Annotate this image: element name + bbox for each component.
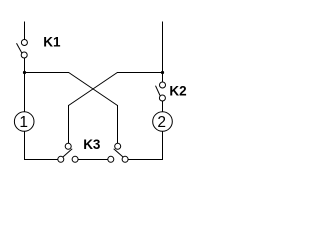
svg-text:K3: K3: [83, 137, 101, 152]
wire A vertical to K3 right pole: [117, 105, 119, 143]
wire A horizontal: [24, 72, 69, 74]
wire K2 to lamp 2: [162, 101, 164, 112]
lamp 1: [14, 112, 34, 132]
wire left top rail: [24, 22, 26, 40]
svg-text:K2: K2: [169, 83, 186, 98]
wire bottom right horizontal: [128, 159, 163, 161]
node A junction dot: [23, 71, 26, 74]
switch K3 left top contact: [65, 143, 71, 149]
wire lamp 2 down: [162, 131, 164, 159]
wire B diagonal crossover: [69, 73, 118, 106]
wire right top rail: [162, 22, 164, 73]
switch K3 left inner contact: [72, 156, 78, 162]
switch K3 left blade: [63, 149, 72, 157]
switch K1 blade: [17, 43, 22, 53]
switch K1 top contact: [21, 40, 27, 46]
wire lamp 1 down: [24, 131, 26, 159]
lamp 2: [153, 112, 173, 132]
switch K3 right top contact: [115, 143, 121, 149]
node B junction dot: [161, 71, 164, 74]
wire B horizontal: [117, 72, 163, 74]
switch K1 bottom contact: [21, 52, 27, 58]
switch K2 top contact: [160, 82, 166, 88]
wire K1 to node A: [24, 58, 26, 73]
switch K2 bottom contact: [159, 95, 165, 101]
wire bottom left horizontal: [24, 159, 58, 161]
switch K2 blade: [156, 86, 161, 96]
wire A diagonal crossover: [69, 73, 118, 106]
switch K3 right blade: [114, 149, 123, 157]
wire node A to lamp 1: [24, 73, 26, 112]
wire node B to K2: [162, 73, 164, 82]
switch K3 right inner contact: [108, 156, 114, 162]
switch K3 right outer contact: [122, 156, 128, 162]
wire B vertical to K3 left pole: [68, 105, 70, 143]
svg-text:K1: K1: [43, 34, 61, 49]
switch K3 left outer contact: [58, 156, 64, 162]
svg-text:2: 2: [157, 114, 166, 131]
svg-text:1: 1: [19, 114, 28, 131]
wire K3 link: [78, 159, 108, 161]
